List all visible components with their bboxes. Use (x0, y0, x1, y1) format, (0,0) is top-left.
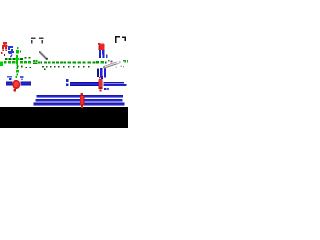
net name text row 2 (dim green dots) (17, 66, 90, 70)
value label (blue text, left) (8, 46, 14, 57)
bus riser (blue columns, right) (97, 68, 106, 79)
component D1 (red blob on bus) (12, 80, 20, 92)
component U1 (red symbol, left) (2, 42, 7, 51)
label text (black, top right) (115, 36, 126, 43)
bus entry marks (blue colon) (66, 79, 69, 86)
wire (green dashed vertical drop) (15, 64, 19, 78)
net anchor square (green, left edge) (0, 62, 3, 67)
bottom pad band (0, 107, 128, 128)
cursor pencil icon P1 (40, 52, 48, 60)
pin text (blue, under bus right) (104, 88, 109, 90)
label text (black, mid-top) (31, 38, 44, 44)
component U2 (red symbol, right) (98, 43, 105, 50)
node dots (red, left edge) (1, 52, 5, 56)
text line 2 (blue) (36, 99, 123, 102)
net anchor square (green, mid) (33, 60, 37, 64)
pins (blue legs under U2) (99, 50, 108, 58)
text line 3 (blue) (34, 103, 125, 106)
node dot (green, right of net) (108, 60, 110, 62)
pin G1 (green, left) (16, 47, 21, 54)
ref text (blue, above D1) (7, 76, 23, 80)
bus segment A3 (mid-right) (70, 82, 98, 86)
bus segment A1 (left) (6, 82, 12, 86)
component D2 (red capsule on bus) (99, 76, 104, 92)
bus segment A4 (right, double line) (104, 82, 127, 86)
wire (bright green main line) (4, 61, 31, 64)
text line 1 (blue) (37, 95, 124, 98)
net anchor squares (green, right edge) (124, 60, 128, 63)
cursor marker (red capsule over text) (80, 93, 85, 108)
white canvas (0, 0, 128, 107)
node dot (purple, right edge) (123, 60, 124, 61)
net name text row (green dashes) (38, 61, 107, 64)
node dot (magenta) (111, 61, 113, 63)
bus segment A2 (20, 82, 30, 86)
junction J1 (green cross) (15, 55, 19, 64)
wire stub (dim green dashes, upper row) (5, 57, 30, 60)
cursor pencil icon P2 (105, 61, 125, 68)
